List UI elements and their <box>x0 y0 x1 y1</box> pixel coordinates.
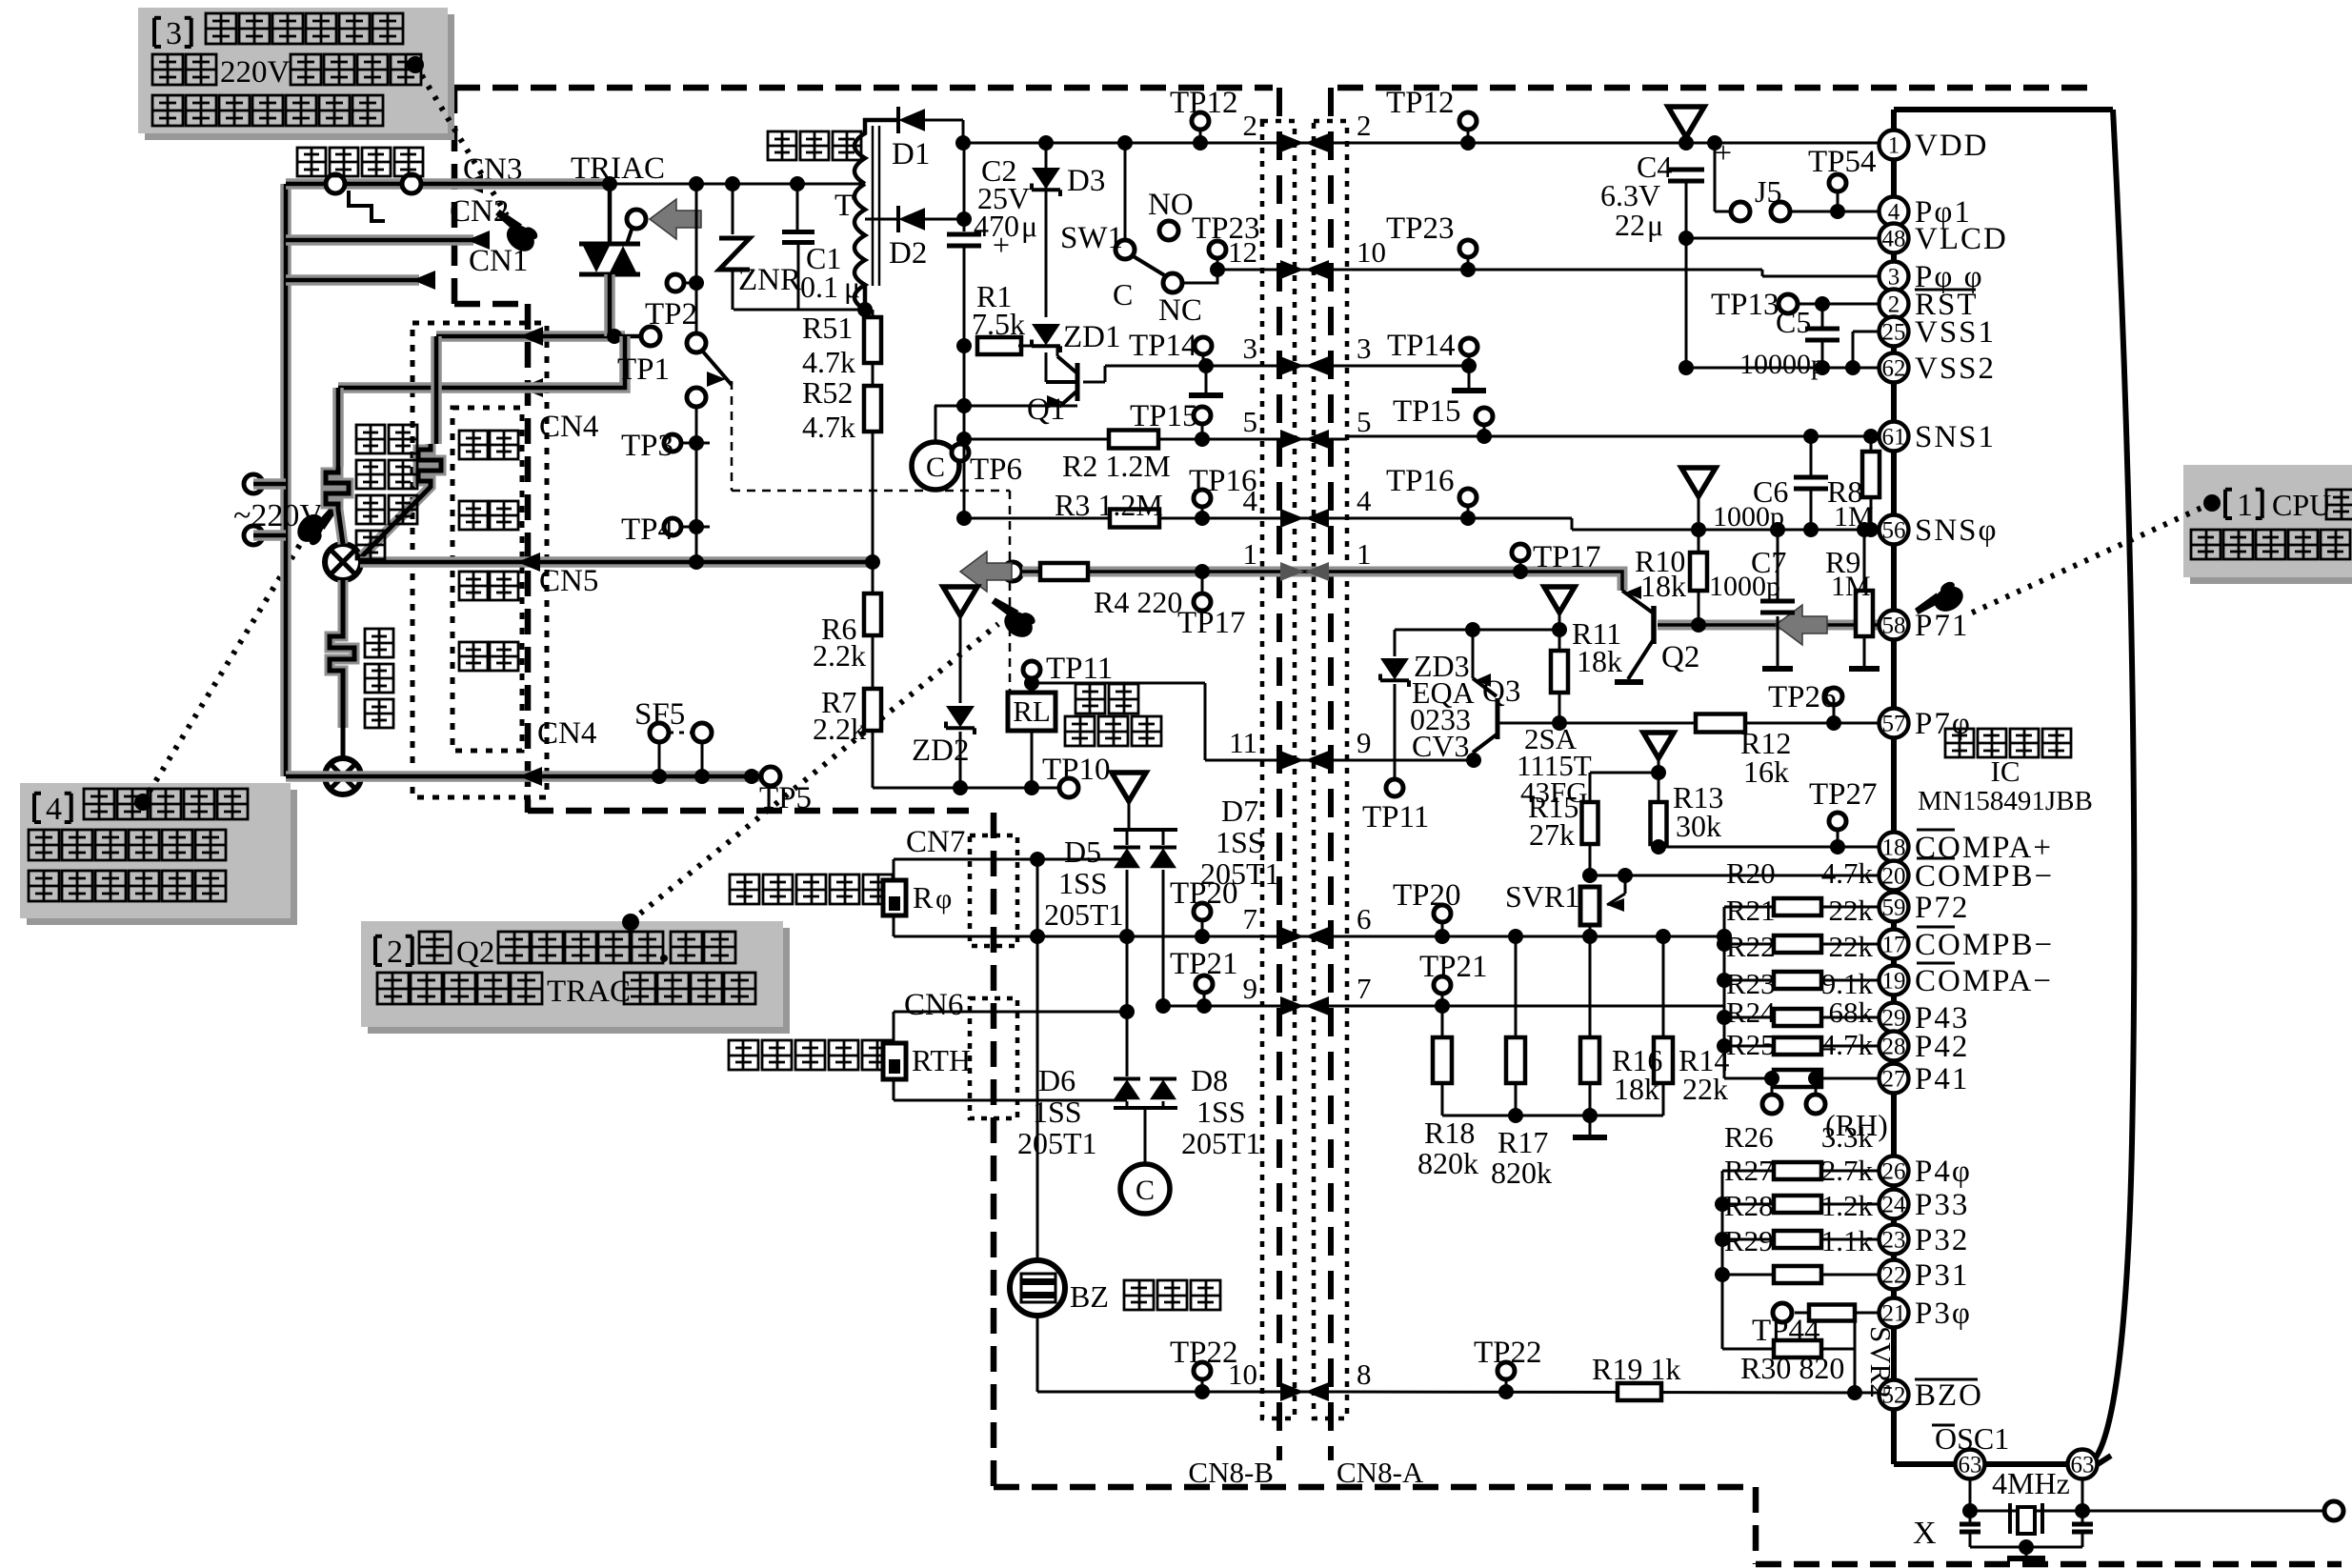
svg-text:CN2: CN2 <box>450 194 509 229</box>
svg-text:4.7k: 4.7k <box>1821 1028 1874 1061</box>
svg-text:TP4: TP4 <box>621 513 673 547</box>
svg-text:57: 57 <box>1882 712 1906 737</box>
svg-text:5: 5 <box>1243 405 1258 438</box>
svg-text:D3: D3 <box>1067 164 1105 198</box>
svg-text:1.1k: 1.1k <box>1821 1224 1874 1257</box>
svg-text:23: 23 <box>1882 1228 1906 1254</box>
svg-text:22k: 22k <box>1682 1072 1728 1106</box>
svg-text:3: 3 <box>1357 332 1372 365</box>
svg-text:62: 62 <box>1882 356 1906 382</box>
svg-text:CN6: CN6 <box>904 988 963 1022</box>
svg-text:18k: 18k <box>1577 644 1622 678</box>
svg-text:ZNR: ZNR <box>738 263 801 297</box>
svg-text:CN7: CN7 <box>906 825 965 859</box>
svg-text:58: 58 <box>1882 613 1906 639</box>
svg-text:3.3k: 3.3k <box>1821 1120 1874 1154</box>
svg-text:R21: R21 <box>1726 894 1776 927</box>
svg-text:R17: R17 <box>1498 1125 1548 1159</box>
svg-text:R24: R24 <box>1726 995 1776 1029</box>
svg-text:27k: 27k <box>1529 817 1575 852</box>
svg-text:μ: μ <box>1647 208 1663 242</box>
svg-text:VDD: VDD <box>1915 129 1989 163</box>
svg-text:TP20: TP20 <box>1170 876 1238 911</box>
svg-text:R4 220: R4 220 <box>1094 585 1182 619</box>
svg-text:C5: C5 <box>1776 305 1811 339</box>
svg-text:9: 9 <box>1243 972 1258 1005</box>
svg-text:26: 26 <box>1882 1159 1906 1185</box>
svg-text:R: R <box>913 880 934 915</box>
svg-text:P32: P32 <box>1915 1223 1969 1257</box>
svg-text:CN4: CN4 <box>539 410 598 444</box>
svg-text:1M: 1M <box>1831 571 1871 602</box>
svg-text:21: 21 <box>1882 1301 1906 1327</box>
svg-text:NO: NO <box>1148 188 1194 222</box>
svg-text:3: 3 <box>1243 332 1258 365</box>
svg-text:TP5: TP5 <box>759 781 812 815</box>
svg-text:VSS1: VSS1 <box>1915 315 1996 350</box>
svg-text:Q2: Q2 <box>1661 640 1699 674</box>
svg-text:1SS: 1SS <box>1058 866 1108 900</box>
svg-text:TP54: TP54 <box>1808 145 1877 179</box>
svg-text:1.2k: 1.2k <box>1821 1189 1874 1222</box>
svg-text:TP16: TP16 <box>1386 464 1455 498</box>
svg-text:63: 63 <box>2071 1453 2095 1478</box>
svg-text:COMPB−: COMPB− <box>1915 859 2054 894</box>
svg-text:R25: R25 <box>1726 1028 1776 1061</box>
svg-text:CPU: CPU <box>2272 488 2331 522</box>
svg-text:D2: D2 <box>889 236 927 271</box>
svg-text:P31: P31 <box>1915 1258 1969 1293</box>
svg-text:C: C <box>1113 277 1133 312</box>
svg-text:4: 4 <box>1357 484 1372 517</box>
svg-text:NC: NC <box>1158 293 1202 328</box>
svg-text:IC: IC <box>1991 754 2020 788</box>
svg-text:2.2k: 2.2k <box>813 712 866 746</box>
svg-text:Q1: Q1 <box>1027 392 1065 427</box>
svg-text:1: 1 <box>1357 537 1372 571</box>
svg-text:R27: R27 <box>1724 1154 1774 1187</box>
svg-text:11: 11 <box>1229 726 1257 759</box>
svg-text:SVR2: SVR2 <box>1864 1326 1898 1398</box>
svg-text:~220V: ~220V <box>233 498 323 533</box>
svg-text:TP26: TP26 <box>1768 680 1837 714</box>
svg-text:0.1: 0.1 <box>800 270 838 304</box>
svg-text:18k: 18k <box>1640 569 1686 603</box>
svg-text:RL: RL <box>1013 694 1051 728</box>
svg-text:18: 18 <box>1882 835 1906 861</box>
svg-text:48: 48 <box>1882 227 1906 252</box>
svg-text:1: 1 <box>1243 537 1258 571</box>
svg-text:10: 10 <box>1357 235 1386 269</box>
svg-text:P72: P72 <box>1915 891 1969 925</box>
svg-text:7.5k: 7.5k <box>972 307 1025 341</box>
svg-text:820k: 820k <box>1491 1156 1552 1190</box>
svg-text:205T1: 205T1 <box>1181 1126 1261 1160</box>
svg-text:CN8-A: CN8-A <box>1337 1456 1424 1489</box>
svg-text:TP21: TP21 <box>1170 947 1238 981</box>
svg-text:4: 4 <box>46 792 62 827</box>
svg-text:1: 1 <box>2237 488 2253 523</box>
svg-text:470: 470 <box>974 209 1019 243</box>
svg-text:TP10: TP10 <box>1042 753 1111 787</box>
svg-text:Q2: Q2 <box>456 935 494 970</box>
svg-text:R18: R18 <box>1424 1116 1475 1150</box>
svg-text:56: 56 <box>1882 518 1906 544</box>
svg-text:R20: R20 <box>1726 856 1776 890</box>
svg-text:28: 28 <box>1882 1035 1906 1060</box>
svg-text:TP14: TP14 <box>1129 329 1197 363</box>
svg-text:TP17: TP17 <box>1177 606 1246 640</box>
svg-text:R22: R22 <box>1726 930 1776 963</box>
svg-text:TP1: TP1 <box>617 352 670 387</box>
svg-text:φ: φ <box>935 883 952 915</box>
svg-text:TP6: TP6 <box>970 452 1022 487</box>
svg-text:μ: μ <box>1021 209 1037 243</box>
svg-text:10000p: 10000p <box>1739 349 1825 380</box>
svg-text:P42: P42 <box>1915 1030 1969 1064</box>
svg-text:P71: P71 <box>1915 609 1969 643</box>
svg-text:8: 8 <box>1357 1357 1372 1391</box>
svg-text:C: C <box>1136 1175 1155 1206</box>
svg-text:R30 820: R30 820 <box>1740 1351 1844 1385</box>
svg-text:TP17: TP17 <box>1533 540 1601 574</box>
svg-text:D1: D1 <box>892 137 930 171</box>
svg-text:820k: 820k <box>1417 1146 1478 1180</box>
svg-text:1000p: 1000p <box>1709 571 1780 602</box>
svg-text:D7: D7 <box>1221 794 1258 828</box>
svg-text:30k: 30k <box>1676 809 1721 843</box>
svg-text:24: 24 <box>1882 1193 1907 1218</box>
svg-text:22: 22 <box>1882 1263 1906 1289</box>
svg-text:TRIAC: TRIAC <box>571 151 665 186</box>
svg-text:25: 25 <box>1882 320 1906 346</box>
svg-text:MN158491JBB: MN158491JBB <box>1918 786 2093 816</box>
svg-text:9: 9 <box>1357 726 1372 759</box>
svg-text:COMPA−: COMPA− <box>1915 964 2053 998</box>
svg-text:1SS: 1SS <box>1216 825 1265 859</box>
svg-text:22k: 22k <box>1829 894 1874 927</box>
svg-text:CV3: CV3 <box>1412 729 1469 763</box>
svg-text:27: 27 <box>1882 1067 1906 1093</box>
svg-text:4: 4 <box>1243 484 1258 517</box>
svg-text:22: 22 <box>1615 208 1645 242</box>
svg-text:4.7k: 4.7k <box>802 410 855 444</box>
svg-text:C: C <box>926 452 945 483</box>
svg-text:ZD1: ZD1 <box>1063 320 1121 354</box>
svg-text:220V: 220V <box>220 55 291 90</box>
svg-text:61: 61 <box>1882 425 1906 451</box>
svg-text:17: 17 <box>1882 933 1906 958</box>
svg-text:X: X <box>1913 1516 1937 1551</box>
svg-text:10: 10 <box>1228 1357 1257 1391</box>
svg-text:16k: 16k <box>1743 754 1789 789</box>
svg-text:T: T <box>834 189 854 223</box>
svg-text:BZ: BZ <box>1070 1279 1109 1314</box>
svg-text:TRAC: TRAC <box>547 975 631 1009</box>
svg-text:J5: J5 <box>1755 174 1781 209</box>
svg-text:Q3: Q3 <box>1482 674 1520 709</box>
svg-text:2: 2 <box>1357 109 1372 142</box>
svg-text:P33: P33 <box>1915 1188 1969 1222</box>
svg-text:D5: D5 <box>1064 834 1101 869</box>
svg-text:205T1: 205T1 <box>1044 897 1124 932</box>
svg-text:7: 7 <box>1357 972 1372 1005</box>
svg-text:TP2: TP2 <box>645 297 697 332</box>
svg-text:59: 59 <box>1882 895 1906 921</box>
svg-text:CN8-B: CN8-B <box>1188 1456 1274 1489</box>
svg-text:TP23: TP23 <box>1386 211 1455 246</box>
svg-text:BZO: BZO <box>1915 1378 1983 1413</box>
svg-text:R51: R51 <box>802 311 853 345</box>
svg-text:CN4: CN4 <box>537 716 596 751</box>
svg-text:5: 5 <box>1357 405 1372 438</box>
svg-text:29: 29 <box>1882 1006 1906 1032</box>
svg-text:TP12: TP12 <box>1386 86 1455 120</box>
svg-text:D6: D6 <box>1038 1063 1075 1097</box>
svg-text:2: 2 <box>1888 292 1900 318</box>
svg-text:VSS2: VSS2 <box>1915 352 1996 386</box>
svg-text:CN1: CN1 <box>469 244 528 278</box>
svg-text:68k: 68k <box>1829 995 1874 1029</box>
svg-text:63: 63 <box>1959 1453 1982 1478</box>
svg-text:TP11: TP11 <box>1362 800 1429 834</box>
svg-text:TP12: TP12 <box>1170 86 1238 120</box>
svg-text:TP14: TP14 <box>1387 329 1456 363</box>
svg-text:R3 1.2M: R3 1.2M <box>1055 488 1163 522</box>
svg-text:TP20: TP20 <box>1393 878 1461 913</box>
svg-text:SNS1: SNS1 <box>1915 420 1996 454</box>
svg-text:μ: μ <box>844 270 860 304</box>
svg-text:12: 12 <box>1228 235 1257 269</box>
svg-text:2.2k: 2.2k <box>813 638 866 673</box>
svg-text:TP27: TP27 <box>1809 777 1878 812</box>
svg-text:18k: 18k <box>1614 1072 1659 1106</box>
svg-text:P41: P41 <box>1915 1062 1969 1096</box>
svg-text:22k: 22k <box>1829 930 1874 963</box>
svg-text:R29: R29 <box>1724 1224 1774 1257</box>
svg-text:P4φ: P4φ <box>1915 1155 1972 1189</box>
svg-text:7: 7 <box>1243 902 1258 935</box>
svg-text:R26: R26 <box>1724 1120 1774 1154</box>
svg-text:TP15: TP15 <box>1130 399 1198 433</box>
svg-text:COMPB−: COMPB− <box>1915 928 2054 962</box>
svg-text:TP22: TP22 <box>1474 1336 1542 1370</box>
svg-text:2.7k: 2.7k <box>1821 1154 1874 1187</box>
svg-text:19: 19 <box>1882 969 1906 995</box>
svg-text:R19 1k: R19 1k <box>1592 1352 1680 1386</box>
svg-text:P3φ: P3φ <box>1915 1297 1972 1331</box>
svg-text:3: 3 <box>166 16 182 51</box>
svg-text:4.7k: 4.7k <box>1821 856 1874 890</box>
svg-text:205T1: 205T1 <box>1017 1126 1097 1160</box>
svg-text:TP21: TP21 <box>1419 950 1488 984</box>
svg-text:SNSφ: SNSφ <box>1915 513 1999 548</box>
svg-text:20: 20 <box>1882 864 1906 890</box>
svg-text:CN5: CN5 <box>539 564 598 598</box>
svg-text:2: 2 <box>1243 109 1258 142</box>
svg-text:TP3: TP3 <box>621 429 673 463</box>
svg-text:SF5: SF5 <box>634 697 685 732</box>
svg-text:TP13: TP13 <box>1711 288 1779 322</box>
svg-text:3: 3 <box>1888 265 1900 291</box>
svg-text:R28: R28 <box>1724 1189 1774 1222</box>
svg-text:R52: R52 <box>802 375 853 410</box>
svg-text:R2 1.2M: R2 1.2M <box>1062 449 1171 483</box>
svg-text:6: 6 <box>1357 902 1372 935</box>
svg-text:4MHz: 4MHz <box>1992 1466 2070 1500</box>
svg-text:RTH: RTH <box>912 1043 971 1077</box>
svg-text:TP15: TP15 <box>1393 394 1461 429</box>
svg-text:SVR1: SVR1 <box>1505 879 1579 914</box>
svg-text:TP11: TP11 <box>1046 652 1113 686</box>
svg-text:1SS: 1SS <box>1196 1095 1246 1129</box>
svg-text:4.7k: 4.7k <box>802 345 855 379</box>
svg-text:VLCD: VLCD <box>1915 222 2008 256</box>
svg-text:D8: D8 <box>1191 1063 1228 1097</box>
svg-text:2: 2 <box>387 935 403 970</box>
svg-text:1: 1 <box>1888 133 1900 159</box>
svg-text:SW1: SW1 <box>1060 221 1123 255</box>
